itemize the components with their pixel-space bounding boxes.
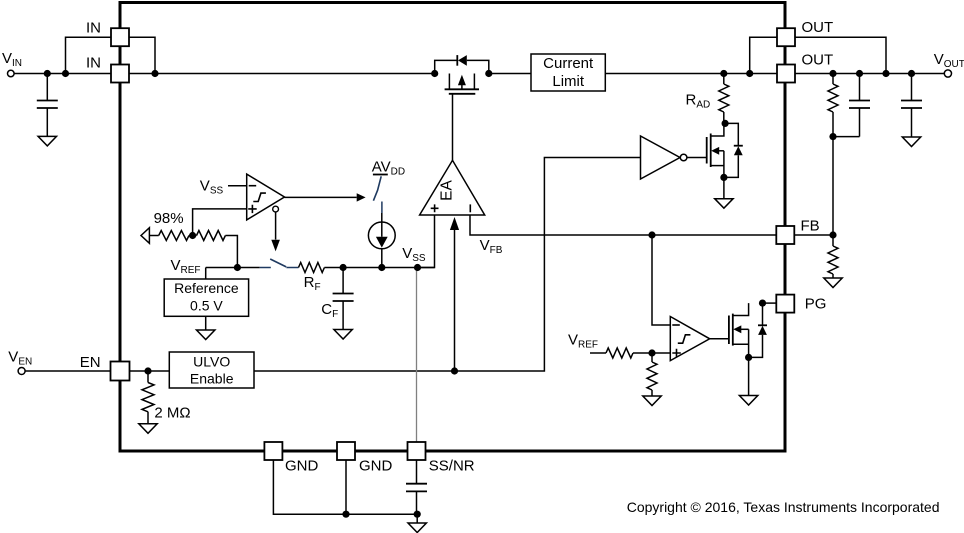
pin SSNR (408, 442, 426, 460)
node SSNR branch (414, 264, 421, 271)
svg-text:VSS: VSS (402, 245, 426, 264)
node RAD top (720, 70, 727, 77)
svg-text:AVDD: AVDD (372, 159, 405, 178)
svg-text:SS/NR: SS/NR (429, 458, 475, 475)
svg-text:VREF: VREF (568, 332, 598, 351)
node Iss (378, 264, 385, 271)
capacitor C_SS (406, 460, 427, 514)
wire FET source to gnd (723, 177, 725, 198)
wire PG source to gnd (748, 357, 750, 395)
pin GND1 (264, 442, 282, 460)
wire IN1 tie right (129, 37, 155, 73)
ground (PG FET) (739, 396, 757, 406)
comparator U_ss (247, 174, 285, 220)
terminal VIN (8, 70, 15, 77)
svg-text:VREF: VREF (171, 257, 201, 276)
svg-text:GND: GND (285, 458, 319, 475)
block Reference 0.5V (164, 279, 248, 316)
resistor 98% lower (197, 231, 226, 241)
svg-text:VIN: VIN (2, 50, 22, 69)
svg-text:Enable: Enable (190, 371, 234, 387)
resistor VREF filter (606, 348, 633, 358)
node FB ext (829, 231, 836, 238)
node PG source (745, 354, 752, 361)
svg-text:IN: IN (86, 20, 101, 37)
wire FET to current limit (489, 73, 531, 75)
node discharge source (720, 174, 727, 181)
block Current Limit (531, 54, 605, 91)
node IN tie ext (62, 70, 69, 77)
node GND tie (342, 511, 349, 518)
ground (COUT) (902, 137, 920, 147)
svg-text:OUT: OUT (802, 52, 834, 69)
svg-text:Reference: Reference (174, 280, 239, 296)
pin FB (776, 226, 794, 244)
svg-text:VFB: VFB (480, 237, 503, 256)
body diode PG NMOS (749, 303, 767, 357)
wire divider node to FB (832, 137, 834, 235)
wire VREF to switch (206, 267, 260, 269)
node VREF tap (234, 264, 241, 271)
pin OUT1 (777, 28, 795, 46)
node COUT (908, 70, 915, 77)
pin OUT2 (777, 65, 795, 83)
resistor R_AD (719, 74, 729, 124)
ground (divider) (824, 278, 842, 288)
svg-text:GND: GND (359, 458, 393, 475)
inverter U_dis (641, 136, 687, 179)
wire 98% stub (149, 235, 158, 237)
svg-text:EN: EN (80, 354, 101, 371)
AVDD supply bar (373, 174, 388, 176)
wire pass FET gate to EA (452, 94, 454, 161)
node CIN (44, 70, 51, 77)
wire VSS to comp minus (228, 185, 247, 187)
node enable branch (451, 367, 458, 374)
node divider mid (829, 133, 836, 140)
arrow to AVDD switch (357, 193, 366, 201)
resistor R_EN 2M (142, 371, 154, 424)
svg-text:RF: RF (304, 274, 321, 293)
wire FB to PG comp minus (652, 235, 670, 325)
node PG plus (648, 349, 655, 356)
pin IN1 (111, 28, 129, 46)
wire EN input (25, 370, 169, 372)
wire inverter out to gate (687, 157, 707, 159)
capacitor feed-forward (849, 74, 870, 137)
capacitor C_F (333, 268, 354, 330)
capacitor output COUT (901, 74, 922, 138)
switch SW_ref blade (270, 259, 286, 267)
terminal VEN (18, 368, 25, 375)
wire switch to current source (381, 202, 383, 214)
svg-text:FB: FB (801, 218, 820, 235)
svg-text:PG: PG (805, 296, 827, 313)
ground (CIN) (38, 136, 56, 146)
wire 98% tap (189, 235, 197, 237)
wire VREF2 stub (590, 352, 606, 354)
svg-text:Limit: Limit (552, 73, 585, 90)
wire VSS to SSNR pin (416, 268, 418, 443)
wire OUT1 tie right (795, 37, 886, 73)
wire Cff bottom tie (833, 136, 860, 138)
pin IN2 (111, 65, 129, 83)
node OUT tie int (746, 70, 753, 77)
node EN (144, 367, 151, 374)
svg-text:0.5 V: 0.5 V (190, 297, 223, 313)
wire OUT1 tie left (750, 37, 777, 73)
switch SW_avdd blade (373, 176, 381, 200)
wire PG comp out to gate (710, 338, 729, 340)
node CF (340, 264, 347, 271)
resistor R_F (299, 263, 325, 273)
wire output rail (605, 73, 944, 75)
resistor divider bottom (828, 235, 838, 278)
terminal VOUT (944, 70, 951, 77)
node VFB branch (648, 231, 655, 238)
wire switch left contact (260, 267, 271, 269)
wire reference stub (205, 268, 207, 280)
node RAD bottom (722, 120, 729, 127)
op-amp EA (420, 160, 485, 215)
ground (C_F) (334, 330, 352, 340)
node IN tie int (151, 70, 158, 77)
ground (reference) (197, 330, 215, 340)
transistor discharge NMOS (707, 123, 724, 177)
node FET drain (485, 70, 492, 77)
svg-text:VSS: VSS (200, 178, 224, 197)
transistor pass PMOS (445, 74, 479, 94)
arrow to VREF switch (271, 240, 280, 252)
ground (PG pulldown) (643, 396, 661, 406)
svg-text:2 MΩ: 2 MΩ (154, 405, 190, 422)
svg-text:CF: CF (321, 301, 338, 320)
svg-text:VOUT: VOUT (934, 51, 964, 70)
svg-text:98%: 98% (154, 210, 184, 227)
wire bubble down (275, 212, 277, 240)
ground (discharge FET) (715, 199, 733, 209)
node divider top (829, 70, 836, 77)
wire switch right contact (286, 267, 298, 269)
pin GND2 (337, 442, 355, 460)
svg-text:Copyright © 2016, Texas Instru: Copyright © 2016, Texas Instruments Inco… (627, 499, 940, 515)
node Cff top (856, 70, 863, 77)
wire FB pin to divider (795, 234, 833, 236)
svg-text:VEN: VEN (8, 349, 32, 368)
IC boundary box (120, 3, 785, 452)
node PG drain (759, 300, 766, 307)
wire reference gnd stub (205, 316, 207, 330)
svg-text:OUT: OUT (802, 19, 834, 36)
node OUT tie ext (882, 70, 889, 77)
resistor divider top (828, 74, 838, 137)
wire to PG comp plus (633, 352, 670, 354)
arrow 98% left (141, 228, 149, 244)
wire GND2 tie (345, 460, 347, 514)
enable arrow into EA (454, 230, 456, 371)
transistor PG NMOS (729, 303, 749, 357)
svg-text:IN: IN (86, 55, 101, 72)
wire SSNR gnd stub (416, 514, 418, 523)
capacitor input CIN (37, 74, 58, 137)
comparator U_pg (670, 317, 709, 361)
wire VSS rail (324, 267, 434, 269)
wire comparator out (285, 196, 357, 198)
svg-text:EA: EA (439, 180, 456, 201)
node SSNR gnd (414, 511, 421, 518)
wire VFB net (470, 215, 777, 235)
comparator inverted output bubble (273, 206, 279, 212)
node FET source (431, 70, 438, 77)
wire GND1 tie (273, 460, 417, 514)
ground (C_SS) (408, 523, 426, 533)
pin EN (111, 362, 130, 381)
svg-text:Current: Current (543, 55, 594, 72)
wire VIN input rail (14, 73, 435, 75)
svg-text:RAD: RAD (686, 92, 711, 111)
node 98 tap (189, 232, 196, 239)
resistor PG pulldown (647, 353, 657, 396)
body diode discharge NMOS (724, 123, 743, 177)
wire IN1 tie left (66, 37, 112, 73)
wire tap to comp plus (193, 209, 247, 236)
current source I_ss (368, 213, 395, 268)
body diode pass PMOS (435, 55, 489, 73)
wire enable rail to inverter (254, 158, 641, 372)
ground (R_EN) (139, 424, 157, 434)
wire 98% to VREF (225, 236, 237, 268)
resistor 98% upper (159, 231, 189, 241)
pin PG (776, 295, 794, 313)
block ULVO Enable (169, 352, 254, 388)
wire PG drain to pin (763, 302, 778, 304)
wire EA plus input (418, 215, 435, 268)
svg-text:ULVO: ULVO (193, 354, 230, 370)
